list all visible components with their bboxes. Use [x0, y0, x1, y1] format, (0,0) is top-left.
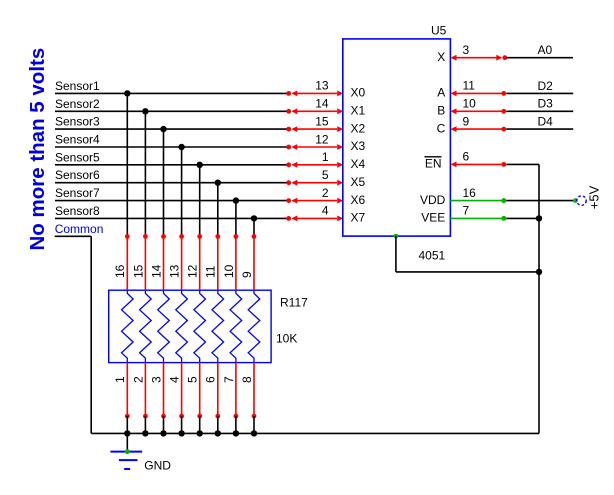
svg-text:Sensor2: Sensor2 [55, 97, 100, 111]
svg-text:2: 2 [131, 376, 145, 383]
svg-text:A0: A0 [538, 43, 553, 57]
svg-text:16: 16 [463, 186, 477, 200]
svg-text:D2: D2 [538, 79, 554, 93]
svg-text:VDD: VDD [420, 193, 446, 207]
svg-text:D4: D4 [538, 115, 554, 129]
svg-text:Sensor7: Sensor7 [55, 186, 100, 200]
svg-text:R117: R117 [280, 296, 308, 310]
svg-text:5: 5 [322, 168, 329, 182]
svg-text:11: 11 [463, 79, 476, 93]
svg-text:15: 15 [131, 264, 145, 278]
svg-text:Sensor8: Sensor8 [55, 204, 100, 218]
svg-text:Sensor3: Sensor3 [55, 115, 100, 129]
svg-text:X1: X1 [351, 104, 366, 118]
svg-text:X5: X5 [351, 175, 366, 189]
svg-text:Sensor4: Sensor4 [55, 133, 100, 147]
svg-text:4: 4 [322, 204, 329, 218]
svg-text:13: 13 [168, 264, 182, 278]
svg-text:Sensor6: Sensor6 [55, 168, 100, 182]
svg-text:VEE: VEE [421, 211, 445, 225]
svg-text:X: X [437, 50, 445, 64]
svg-text:2: 2 [322, 186, 329, 200]
svg-text:U5: U5 [431, 23, 447, 37]
svg-text:B: B [437, 104, 445, 118]
svg-text:Sensor1: Sensor1 [55, 79, 100, 93]
svg-text:10: 10 [463, 97, 477, 111]
svg-text:D3: D3 [538, 97, 554, 111]
svg-text:14: 14 [315, 97, 329, 111]
svg-text:1: 1 [113, 376, 127, 383]
svg-text:9: 9 [463, 114, 470, 128]
svg-text:C: C [437, 121, 446, 135]
svg-text:10: 10 [222, 264, 236, 278]
svg-text:16: 16 [113, 264, 127, 278]
svg-text:Sensor5: Sensor5 [55, 150, 100, 164]
svg-text:12: 12 [315, 132, 329, 146]
svg-text:8: 8 [240, 376, 254, 383]
svg-text:1: 1 [322, 150, 329, 164]
svg-text:Common: Common [55, 222, 104, 236]
svg-text:4051: 4051 [419, 249, 446, 263]
svg-text:3: 3 [463, 43, 470, 57]
svg-text:3: 3 [149, 376, 163, 383]
svg-text:X3: X3 [351, 139, 366, 153]
svg-text:4: 4 [168, 376, 182, 383]
svg-text:14: 14 [149, 264, 163, 278]
svg-text:10K: 10K [276, 332, 297, 346]
svg-text:11: 11 [204, 265, 218, 278]
svg-text:13: 13 [315, 79, 329, 93]
svg-text:6: 6 [463, 150, 470, 164]
svg-text:EN: EN [425, 157, 442, 171]
svg-text:X2: X2 [351, 121, 366, 135]
svg-text:No more than 5 volts: No more than 5 volts [26, 48, 49, 251]
svg-text:+5V: +5V [586, 185, 601, 209]
svg-text:9: 9 [240, 271, 254, 278]
svg-text:7: 7 [222, 376, 236, 383]
svg-text:X7: X7 [351, 211, 366, 225]
svg-text:X6: X6 [351, 193, 366, 207]
svg-text:X0: X0 [351, 86, 366, 100]
svg-text:12: 12 [186, 264, 200, 278]
svg-text:6: 6 [204, 376, 218, 383]
svg-text:X4: X4 [351, 157, 366, 171]
svg-text:15: 15 [315, 114, 329, 128]
svg-text:7: 7 [463, 204, 470, 218]
svg-text:A: A [437, 86, 445, 100]
svg-text:GND: GND [144, 459, 171, 473]
svg-text:5: 5 [186, 376, 200, 383]
